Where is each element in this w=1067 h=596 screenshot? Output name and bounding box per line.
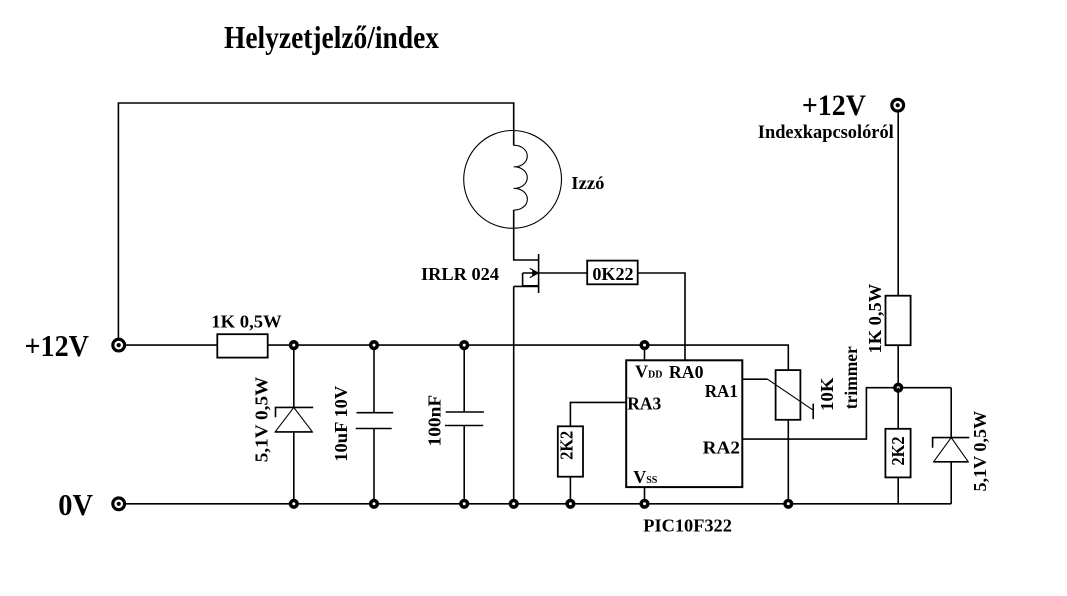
junction dot 0V rail / D1	[289, 499, 299, 509]
svg-text:1K 0,5W: 1K 0,5W	[865, 284, 885, 354]
wire: R4 bottom to node	[897, 345, 899, 388]
trimmer RV1 wiper end bar	[812, 404, 814, 420]
svg-text:RA0: RA0	[669, 362, 704, 382]
transistor Q1 gate plate	[523, 273, 539, 286]
capacitor C1 plates	[357, 412, 394, 414]
zener D1 cathode bar with hook	[276, 407, 314, 417]
wire: D2 anode to 0V rail	[950, 462, 952, 504]
svg-text:100nF: 100nF	[425, 395, 445, 447]
svg-text:+12V: +12V	[25, 328, 90, 363]
capacitor C1 10uF 10V : top wire	[373, 345, 375, 413]
wire: 0V rail	[119, 503, 952, 505]
wire: C1 bottom to 0V rail	[373, 429, 375, 504]
junction dot 0V rail / R2	[565, 499, 575, 509]
zener D2 triangle	[934, 438, 969, 462]
node: +12V terminal left	[113, 339, 125, 351]
wire: +12V net from left terminal up and across to lamp	[118, 103, 513, 345]
svg-text:+12V: +12V	[802, 89, 866, 122]
wire: +12V rail left of R1	[118, 344, 217, 346]
junction dot 0V rail / VSS	[639, 499, 649, 509]
junction dot +12V rail / C2	[459, 340, 469, 350]
svg-text:2K2: 2K2	[557, 431, 577, 460]
junction dot 0V rail / trimmer	[783, 499, 793, 509]
wire: C2 bottom to 0V rail	[463, 426, 465, 504]
wire: source down to 0V rail	[513, 286, 515, 503]
wire: D1 anode to 0V rail	[293, 432, 295, 504]
svg-text:1K 0,5W: 1K 0,5W	[211, 311, 281, 331]
wire: R2 top to RA3	[570, 402, 626, 426]
wire: VSS pin stub	[644, 487, 646, 504]
svg-text:IRLR 024: IRLR 024	[421, 264, 499, 284]
lamp filament coil	[514, 145, 528, 210]
wire: R2 bottom to 0V rail	[569, 477, 571, 504]
svg-text:RA1: RA1	[705, 381, 738, 401]
wire: lamp bottom to MOSFET drain	[514, 210, 539, 260]
wire: VDD pin stub	[644, 345, 646, 360]
svg-text:0V: 0V	[58, 487, 93, 522]
node: 0V terminal	[113, 498, 125, 510]
svg-text:PIC10F322: PIC10F322	[643, 515, 732, 535]
junction dot +12V rail / VDD	[639, 340, 649, 350]
wire: RA2 to right section	[742, 388, 951, 439]
junction dot 0V rail / C1	[369, 499, 379, 509]
junction dot 0V rail / C2	[459, 499, 469, 509]
node: +12V terminal right (Indexkapcsolóról)	[897, 105, 899, 296]
resistor R4 1K 0,5W body (right)	[886, 296, 911, 346]
transistor Q1 gate wire with arrow	[523, 272, 588, 274]
junction dot 0V rail / MOSFET source	[509, 499, 519, 509]
wire: trimmer bottom to 0V rail	[787, 420, 789, 504]
transistor Q1 arrow head	[530, 268, 538, 277]
svg-text:Indexkapcsolóról: Indexkapcsolóról	[758, 122, 894, 143]
svg-text:Izzó: Izzó	[571, 173, 604, 193]
trimmer RV1 10K body	[776, 370, 801, 420]
wire: 0K22 to RA0	[638, 273, 685, 360]
wire: RA1 to trimmer wiper	[742, 378, 767, 380]
wire: node to R5 top	[897, 388, 899, 429]
zener diode D2 5,1V 0,5W right : wire from node	[950, 388, 952, 438]
node junction dot right	[893, 383, 903, 393]
svg-text:10K: 10K	[817, 378, 837, 412]
junction dot +12V rail / zener D1	[289, 340, 299, 350]
svg-text:RA2: RA2	[703, 438, 740, 458]
zener diode D1 5,1V 0,5W : wire from rail	[293, 345, 295, 407]
resistor 0K22 body	[587, 261, 638, 285]
svg-text:0K22: 0K22	[592, 264, 633, 284]
zener D1 triangle	[275, 407, 312, 432]
svg-text:Helyzetjelző/index: Helyzetjelző/index	[224, 19, 439, 55]
trimmer RV1 wiper diagonal	[768, 379, 813, 410]
capacitor C2 100nF : top wire	[463, 345, 465, 412]
svg-text:10uF 10V: 10uF 10V	[331, 386, 351, 462]
wire: +12V rail from R1 to trimmer	[268, 345, 789, 370]
svg-text:5,1V 0,5W: 5,1V 0,5W	[970, 411, 990, 492]
resistor R5 2K2 body (right)	[885, 429, 910, 478]
resistor R2 2K2 body	[558, 426, 583, 476]
svg-text:5,1V 0,5W: 5,1V 0,5W	[252, 377, 272, 463]
transistor Q1 source lead	[514, 285, 539, 287]
transistor Q1 IRLR 024 channel	[538, 254, 540, 293]
svg-text:trimmer: trimmer	[841, 346, 861, 409]
resistor R1 1K 0,5W body	[217, 334, 267, 357]
junction dot +12V rail / C1	[369, 340, 379, 350]
capacitor C2 plates	[446, 411, 484, 413]
lamp "Izzó" bulb circle	[464, 131, 562, 229]
wire: R5 bottom to 0V rail	[897, 477, 899, 503]
svg-text:RA3: RA3	[627, 393, 661, 413]
zener D2 cathode bar with hook	[933, 438, 970, 448]
svg-text:2K2: 2K2	[888, 437, 908, 466]
IC U1 PIC10F322 body	[626, 360, 742, 487]
